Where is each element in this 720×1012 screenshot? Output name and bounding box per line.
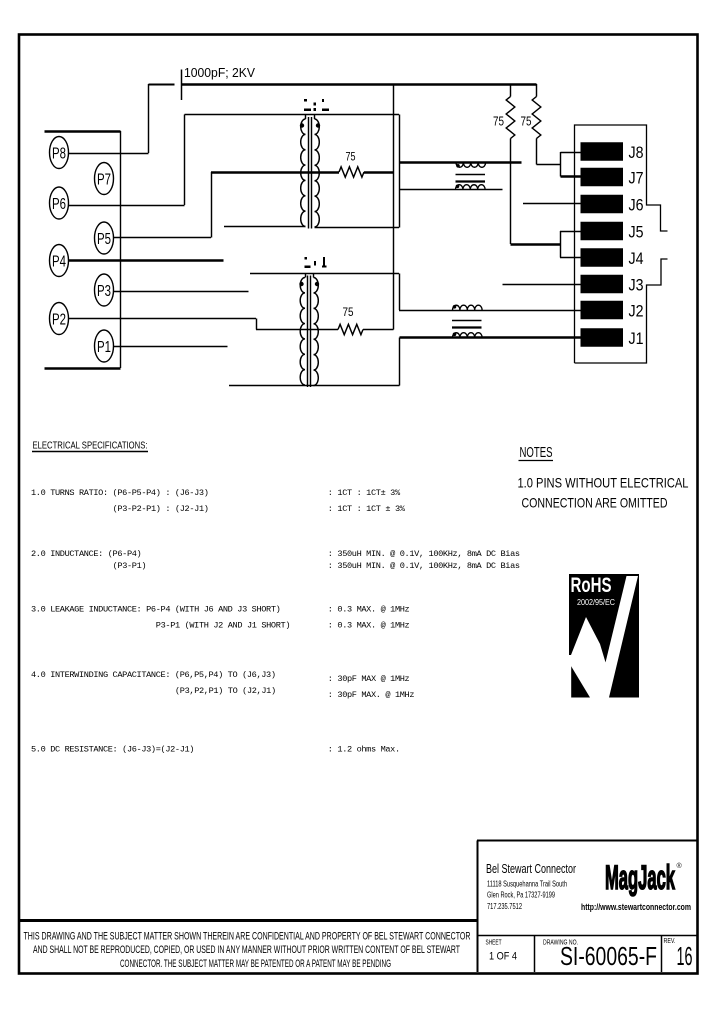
svg-text:717.235.7512: 717.235.7512: [487, 902, 522, 911]
resistor R3 75 ohm: [510, 84, 512, 97]
contact pad J2: [581, 301, 624, 320]
svg-text:2002/95/EC: 2002/95/EC: [577, 597, 615, 607]
svg-text:5.0 DC RESISTANCE: (J6-J3)=(J2: 5.0 DC RESISTANCE: (J6-J3)=(J2-J1): [31, 745, 194, 755]
title block frame: [477, 840, 698, 842]
T1 secondary winding: [315, 119, 320, 227]
resistor R4 75 ohm: [536, 84, 538, 97]
svg-text:http://www.stewartconnector.co: http://www.stewartconnector.com: [581, 902, 691, 912]
T2 phase dot secondary: [315, 282, 319, 286]
contact pad J8: [581, 142, 624, 161]
T1 primary winding: [301, 119, 306, 227]
RoHS logo: [569, 574, 639, 698]
T2 secondary riser top: [399, 274, 401, 311]
wire to J3: [503, 284, 582, 286]
choke L1 bottom phase dot: [456, 185, 460, 189]
svg-text:MagJack: MagJack: [605, 859, 675, 897]
wire P1 stub: [113, 346, 228, 348]
svg-text:4.0 INTERWINDING CAPACITANCE:: 4.0 INTERWINDING CAPACITANCE: (P6,P5,P4)…: [31, 670, 276, 680]
T1 phase dot secondary: [316, 123, 320, 127]
wire P2 to T2 center tap: [68, 318, 256, 320]
svg-text:AND SHALL NOT BE REPRODUCED, C: AND SHALL NOT BE REPRODUCED, COPIED, OR …: [33, 944, 460, 956]
svg-text:P6: P6: [52, 196, 66, 213]
T2 secondary winding: [314, 278, 319, 386]
svg-text:75: 75: [343, 305, 354, 319]
svg-text:P5: P5: [97, 231, 111, 248]
pin P5: [95, 222, 114, 254]
T2 primary top lead: [250, 273, 399, 275]
svg-text:: 0.3 MAX. @ 1MHz: : 0.3 MAX. @ 1MHz: [328, 621, 410, 631]
svg-text:(P3-P2-P1) : (J2-J1): (P3-P2-P1) : (J2-J1): [113, 504, 209, 514]
wire capacitor left lead: [149, 84, 175, 86]
svg-text:J6: J6: [629, 196, 644, 215]
svg-text:: 0.3 MAX. @ 1MHz: : 0.3 MAX. @ 1MHz: [328, 605, 410, 615]
svg-text:P7: P7: [97, 172, 111, 189]
capacitor C1 plate with leader: [181, 70, 183, 101]
contact pad J7: [581, 168, 624, 187]
svg-text:: 350uH MIN. @ 0.1V, 100KHz, 8: : 350uH MIN. @ 0.1V, 100KHz, 8mA DC Bias: [328, 549, 520, 559]
svg-text:P8: P8: [52, 146, 66, 163]
svg-text:J3: J3: [629, 276, 644, 295]
svg-text:®: ®: [677, 862, 683, 870]
wire T1 primary top lead: [185, 114, 400, 116]
svg-text:: 350uH MIN. @ 0.1V, 100KHz, 8: : 350uH MIN. @ 0.1V, 100KHz, 8mA DC Bias: [328, 561, 520, 571]
svg-text:: 1.2 ohms Max.: : 1.2 ohms Max.: [328, 745, 400, 755]
T2 primary bottom lead: [229, 385, 400, 387]
svg-text:P1: P1: [97, 339, 111, 356]
wire P3 stub: [113, 291, 249, 293]
pin P2: [50, 303, 69, 335]
svg-text:ELECTRICAL SPECIFICATIONS:: ELECTRICAL SPECIFICATIONS:: [33, 441, 148, 452]
choke L2 bottom phase dot: [453, 333, 457, 337]
wire top net from capacitor to resistors: [182, 83, 537, 85]
P-side connector box: [45, 130, 121, 132]
contact pad J1: [581, 328, 624, 347]
choke L2 core: [452, 320, 482, 322]
T2 core: [307, 276, 309, 388]
svg-text:16: 16: [677, 941, 693, 971]
contact pad J6: [581, 195, 624, 214]
wire P4 stub: [68, 259, 224, 261]
svg-text:P3-P1 (WITH J2 AND J1 SHORT): P3-P1 (WITH J2 AND J1 SHORT): [156, 621, 290, 631]
choke L2 top winding coil: [453, 305, 483, 310]
wire T1 center tap thick: [211, 171, 339, 173]
T2 primary winding: [300, 278, 305, 386]
svg-text:SI-60065-F: SI-60065-F: [560, 941, 657, 971]
svg-text:: 30pF MAX @ 1MHz: : 30pF MAX @ 1MHz: [328, 674, 410, 684]
pin P7: [95, 163, 114, 195]
svg-text:75: 75: [346, 150, 356, 164]
svg-text:1.0 TURNS RATIO: (P6-P5-P4) :: 1.0 TURNS RATIO: (P6-P5-P4) : (J6-J3): [31, 488, 209, 498]
choke L1 top winding line: [399, 161, 522, 163]
T1 core: [308, 117, 310, 229]
J-side connector box outline: [575, 125, 668, 363]
wire to J6: [523, 203, 581, 205]
svg-text:: 1CT : 1CT ± 3%: : 1CT : 1CT ± 3%: [328, 504, 406, 514]
svg-text:Bel Stewart Connector: Bel Stewart Connector: [486, 861, 576, 876]
wire P5 to T1 center tap: [113, 237, 211, 239]
T1 primary bottom lead: [224, 226, 306, 228]
transformer T2 label 1:1 fragments: [305, 257, 327, 268]
wire P8 to capacitor riser: [68, 153, 149, 155]
wire R4 to J8-J7 bracket: [537, 164, 561, 166]
svg-text:(P3,P2,P1) TO (J2,J1): (P3,P2,P1) TO (J2,J1): [175, 686, 276, 696]
T2 secondary riser bottom: [399, 338, 401, 386]
wire P6 to transformer T1 top: [68, 205, 185, 207]
choke L2 bottom winding line: [400, 336, 582, 338]
choke L2 top winding line: [399, 310, 581, 312]
svg-text:1.0 PINS WITHOUT ELECTRICAL: 1.0 PINS WITHOUT ELECTRICAL: [518, 475, 689, 491]
choke L2 top phase dot: [453, 305, 457, 309]
svg-text:: 1CT : 1CT± 3%: : 1CT : 1CT± 3%: [328, 488, 401, 498]
svg-text:2.0 INDUCTANCE: (P6-P4): 2.0 INDUCTANCE: (P6-P4): [31, 549, 141, 559]
wire center-tap vertical bus: [393, 84, 395, 330]
svg-text:(P3-P1): (P3-P1): [113, 561, 147, 571]
contact pad J3: [581, 275, 624, 294]
svg-text:CONNECTION ARE OMITTED: CONNECTION ARE OMITTED: [522, 495, 668, 511]
svg-text:P4: P4: [52, 254, 66, 271]
svg-text:P3: P3: [97, 283, 111, 300]
resistor R1 75 ohm at T1 center tap: [339, 167, 364, 177]
svg-text:J1: J1: [629, 329, 644, 348]
svg-text:Glen Rock, Pa 17327-9199: Glen Rock, Pa 17327-9199: [487, 891, 555, 900]
svg-text:75: 75: [493, 114, 504, 129]
contact pad J4: [581, 248, 624, 267]
choke L2 bottom winding coil: [453, 333, 483, 338]
choke L1 core: [456, 174, 486, 176]
choke L1 top winding coil: [456, 163, 486, 168]
junction bracket J5-J4: [560, 231, 562, 258]
pin P3: [95, 274, 114, 306]
svg-text:CONNECTOR. THE SUBJECT MATTER: CONNECTOR. THE SUBJECT MATTER MAY BE PAT…: [120, 958, 391, 970]
pin P4: [50, 245, 69, 277]
transformer T1 label 1:1 fragments: [304, 99, 329, 111]
choke L1 bottom winding line: [399, 189, 503, 191]
pin P6: [50, 187, 69, 219]
svg-text:P2: P2: [52, 312, 66, 329]
svg-text:J5: J5: [629, 223, 644, 242]
disclaimer box: [18, 919, 477, 922]
svg-text:J4: J4: [629, 249, 644, 268]
svg-text:: 30pF MAX. @ 1MHz: : 30pF MAX. @ 1MHz: [328, 690, 415, 700]
svg-text:75: 75: [521, 114, 532, 129]
junction bracket J8-J7: [560, 152, 562, 177]
pin P1: [95, 330, 114, 362]
wire R3 to J5-J4 bracket: [511, 243, 561, 245]
svg-text:NOTES: NOTES: [520, 444, 553, 461]
choke L1 bottom winding coil: [456, 185, 486, 190]
svg-text:J2: J2: [629, 302, 644, 321]
T2 phase dot primary: [299, 282, 303, 286]
T1 phase dot primary: [300, 123, 304, 127]
svg-text:1 OF 4: 1 OF 4: [489, 951, 517, 963]
svg-text:J8: J8: [629, 143, 644, 162]
svg-text:REV.: REV.: [664, 938, 676, 945]
svg-text:RoHS: RoHS: [571, 574, 612, 597]
svg-text:J7: J7: [629, 169, 644, 188]
T1 secondary bus: [399, 115, 401, 228]
resistor R2 75 ohm at T2 center tap: [338, 324, 363, 334]
svg-text:11118 Susquehanna Trail South: 11118 Susquehanna Trail South: [487, 880, 567, 889]
svg-text:SHEET: SHEET: [486, 940, 502, 947]
choke L1 top phase dot: [456, 164, 460, 168]
contact pad J5: [581, 222, 624, 241]
pin P8: [50, 137, 69, 169]
svg-text:3.0 LEAKAGE INDUCTANCE: P6-P4: 3.0 LEAKAGE INDUCTANCE: P6-P4 (WITH J6 A…: [31, 605, 280, 615]
svg-text:THIS DRAWING AND THE SUBJECT M: THIS DRAWING AND THE SUBJECT MATTER SHOW…: [24, 931, 471, 943]
T1 secondary bottom lead: [315, 227, 400, 229]
svg-text:1000pF; 2KV: 1000pF; 2KV: [184, 65, 255, 80]
